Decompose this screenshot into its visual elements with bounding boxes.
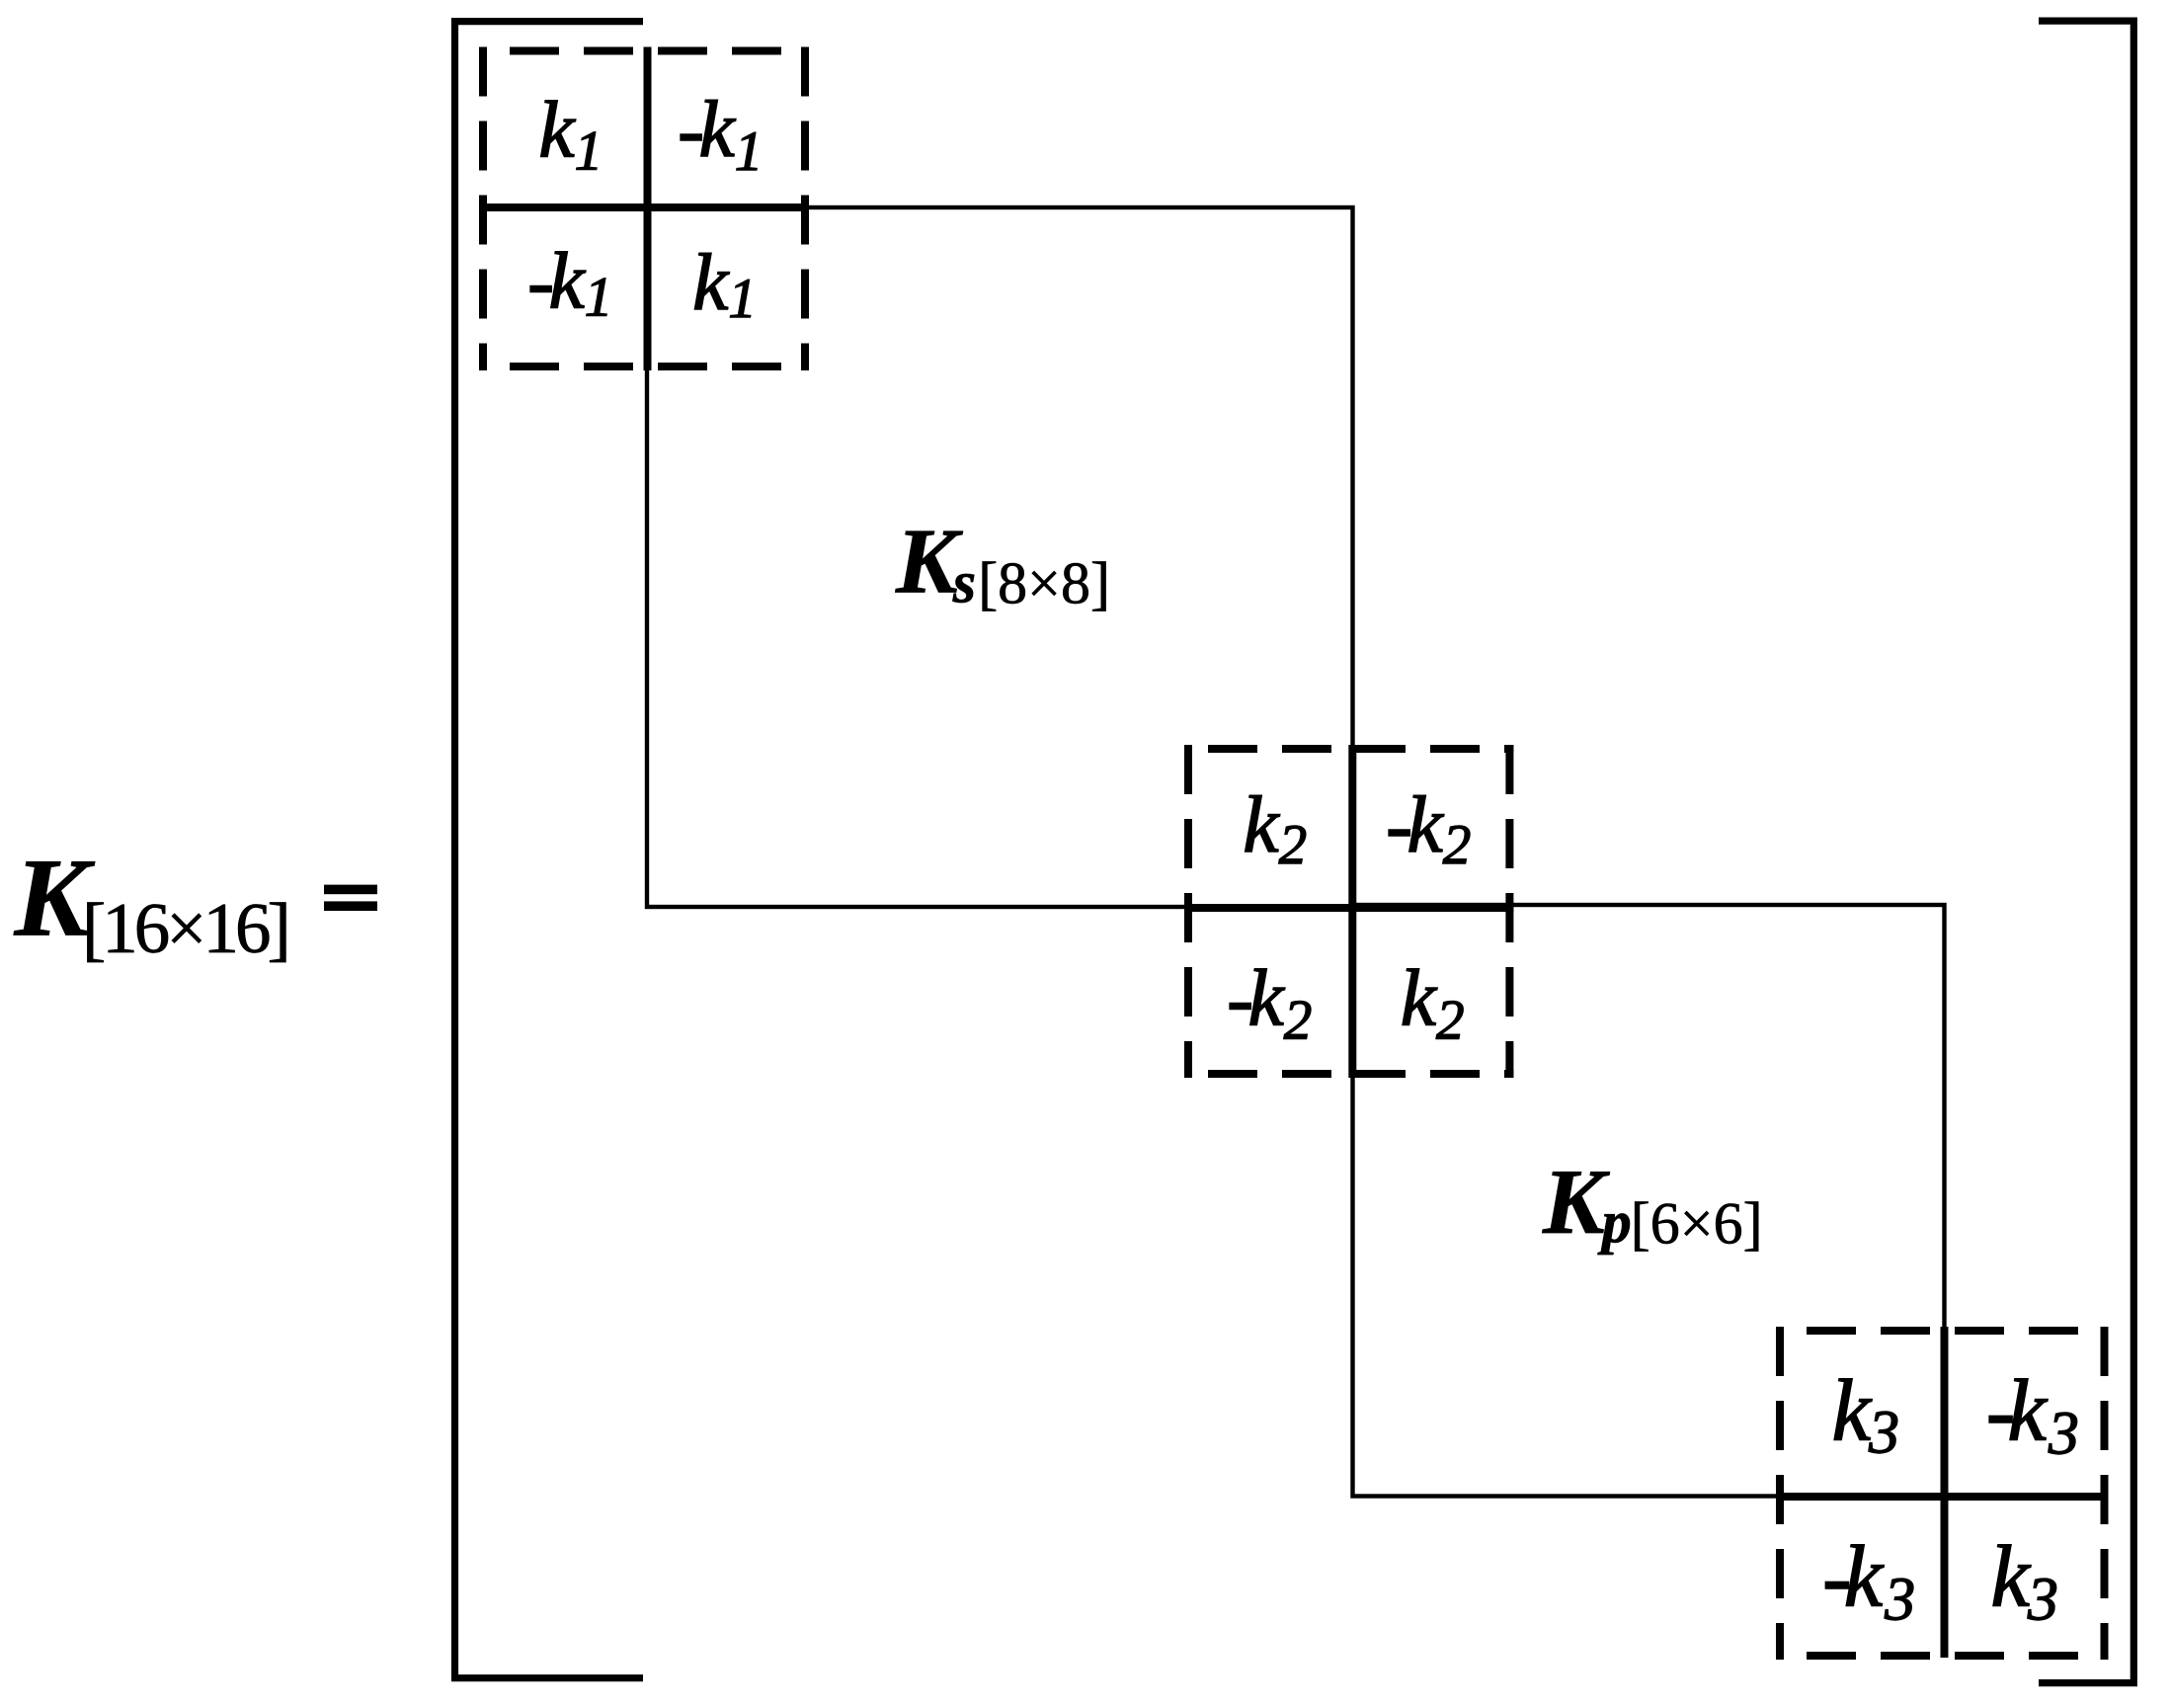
svg-text:K: K [1542,1151,1610,1254]
k2 cross vertical [1348,745,1356,1078]
svg-text:s: s [952,550,976,615]
k2 cross horizontal [1184,904,1513,912]
k1 cross horizontal [479,203,809,211]
svg-text:[16×16]: [16×16] [82,888,287,968]
k3 cross vertical [1941,1327,1949,1658]
submatrix Kp rectangle [1353,905,1945,1497]
k3 dashed box [1776,1327,2109,1660]
right bracket [2039,21,2133,1683]
equals sign [324,885,377,895]
k3 cross horizontal [1776,1493,2109,1501]
left bracket [455,22,644,1678]
svg-text:[8×8]: [8×8] [978,551,1110,616]
k2 dashed box [1184,745,1513,1078]
k1 dashed box [479,47,809,371]
submatrix Ks rectangle [647,207,1353,907]
k1 cross vertical [644,47,652,371]
svg-text:[6×6]: [6×6] [1631,1190,1763,1256]
svg-text:p: p [1597,1189,1632,1255]
